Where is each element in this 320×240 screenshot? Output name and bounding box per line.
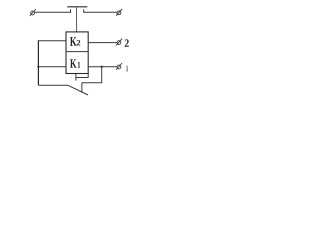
wire K2 left pin bbox=[38, 40, 66, 42]
wire to terminal 1 bbox=[88, 66, 117, 68]
junction dot terminal-1 wire / branch bbox=[101, 66, 103, 68]
contact post of switch K1 bbox=[81, 83, 83, 93]
rail stub below box right edge bbox=[87, 74, 89, 78]
wire K1 left pin bbox=[38, 66, 66, 68]
junction dot left rail / K1 pin bbox=[37, 66, 39, 68]
contact tick left (switch S fixed contact) bbox=[70, 9, 72, 13]
relay coil box K2/K1 outline bbox=[66, 32, 88, 74]
switch blade K1 bbox=[68, 85, 88, 95]
label K1 bbox=[70, 59, 76, 67]
linkage stem from bridge to coil box bbox=[76, 7, 78, 32]
label K2 bbox=[70, 37, 77, 46]
wire top-right bbox=[84, 11, 117, 13]
wire bottom from rail to switch bbox=[38, 84, 68, 86]
right terminal X2 bbox=[116, 9, 122, 16]
wire to terminal 2 bbox=[88, 42, 117, 44]
label 1 bbox=[126, 66, 128, 71]
terminal 1 bbox=[116, 63, 122, 70]
divider between K2 and K1 cells bbox=[66, 51, 88, 53]
left rail wire bbox=[37, 40, 39, 85]
left terminal X1 bbox=[30, 9, 36, 16]
label 2 bbox=[125, 39, 129, 46]
bridge bar of relay contact K2 bbox=[67, 6, 87, 8]
branch wire down from junction bbox=[82, 67, 102, 83]
armature link shelf bbox=[76, 77, 88, 79]
wire top-left bbox=[35, 11, 71, 13]
armature stem below coil box bbox=[75, 74, 77, 81]
contact tick right (switch S fixed contact) bbox=[83, 9, 85, 13]
terminal 2 bbox=[116, 39, 122, 46]
